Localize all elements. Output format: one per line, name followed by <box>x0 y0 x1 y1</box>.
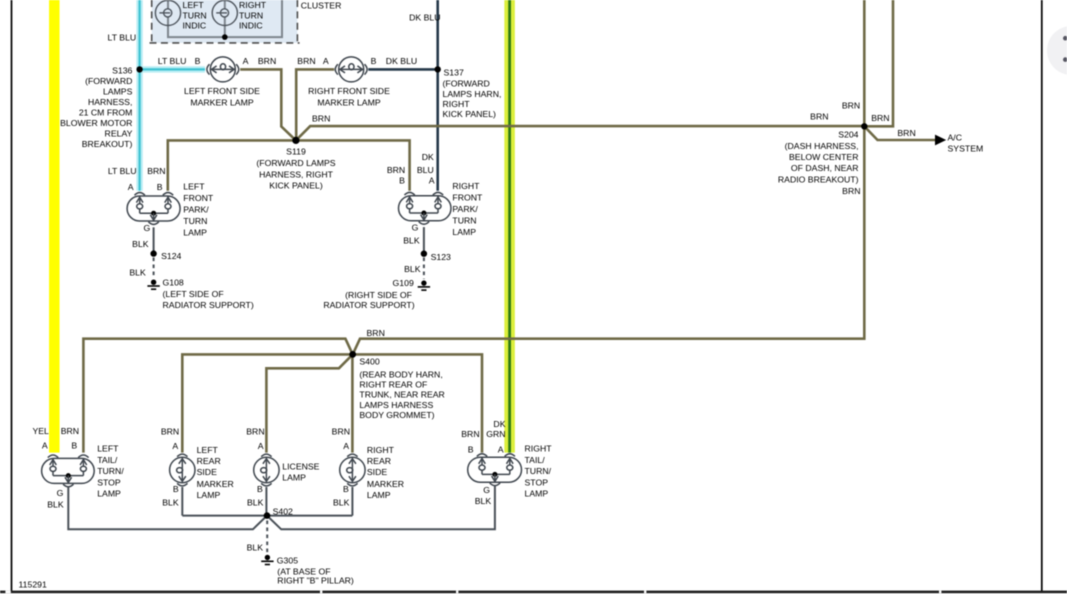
svg-text:115291: 115291 <box>19 580 48 590</box>
svg-text:A: A <box>429 175 435 185</box>
svg-text:RIGHT "B" PILLAR): RIGHT "B" PILLAR) <box>277 575 354 585</box>
svg-text:BLK: BLK <box>333 498 350 508</box>
label B BLK (left rear marker) <box>162 484 179 508</box>
wire LT BLU vertical <box>136 0 142 191</box>
wire BRN S400 branch to left rear marker <box>182 354 352 452</box>
svg-text:B: B <box>371 56 377 66</box>
svg-text:DK BLU: DK BLU <box>386 56 417 66</box>
svg-text:BLK: BLK <box>404 264 421 274</box>
svg-text:BLK: BLK <box>403 236 420 246</box>
svg-text:STOP: STOP <box>525 478 549 488</box>
node cluster bus junction <box>222 34 228 40</box>
svg-text:BLK: BLK <box>132 239 149 249</box>
svg-text:MARKER: MARKER <box>197 479 234 489</box>
labels B DK BLU (right marker) <box>371 56 418 66</box>
svg-text:STOP: STOP <box>97 478 121 488</box>
svg-text:A: A <box>243 56 249 66</box>
label LEFT TAIL/TURN/STOP LAMP <box>97 443 124 498</box>
floating UI button right edge <box>1047 26 1067 75</box>
svg-text:OF DASH, NEAR: OF DASH, NEAR <box>791 163 859 173</box>
svg-text:FRONT: FRONT <box>183 193 214 203</box>
svg-text:CLUSTER: CLUSTER <box>301 1 342 11</box>
node S119 <box>292 137 299 144</box>
right page border <box>1041 0 1043 591</box>
svg-text:SIDE: SIDE <box>367 467 387 477</box>
svg-text:DK: DK <box>422 152 434 162</box>
svg-text:A: A <box>323 56 329 66</box>
svg-text:MARKER: MARKER <box>367 479 404 489</box>
svg-text:TAIL/: TAIL/ <box>525 455 546 465</box>
node S123 <box>421 251 427 257</box>
lamp LEFT TURN INDIC <box>155 0 180 25</box>
svg-text:(FORWARD LAMPS: (FORWARD LAMPS <box>256 158 335 168</box>
arrow to A/C system <box>935 135 946 146</box>
label LEFT FRONT PARK/TURN LAMP <box>183 182 214 238</box>
svg-text:G: G <box>483 485 490 495</box>
label LEFT TURN INDIC <box>183 0 207 31</box>
labels BRN A (right rear marker) <box>332 426 350 451</box>
svg-text:HARNESS, RIGHT: HARNESS, RIGHT <box>259 169 334 179</box>
wire BLK left park ground <box>153 227 155 251</box>
svg-text:LEFT: LEFT <box>183 0 205 10</box>
svg-text:RADIATOR SUPPORT): RADIATOR SUPPORT) <box>323 300 414 310</box>
label S204 block <box>778 130 859 185</box>
wire BRN vertical feed 1 (to S204, bus, left tail) <box>83 0 864 453</box>
label RIGHT FRONT SIDE MARKER LAMP <box>308 86 390 107</box>
wire BRN S204 to A/C system <box>864 126 935 140</box>
svg-text:BLK: BLK <box>247 542 264 552</box>
label B BLK (right rear marker) <box>333 484 350 508</box>
instrument cluster box <box>150 0 300 43</box>
svg-text:TRUNK, NEAR REAR: TRUNK, NEAR REAR <box>359 390 444 400</box>
svg-text:TURN: TURN <box>452 216 476 226</box>
svg-text:(RIGHT SIDE OF: (RIGHT SIDE OF <box>345 290 412 300</box>
svg-text:YEL: YEL <box>32 426 49 436</box>
node S124 <box>150 250 156 256</box>
svg-text:INDIC: INDIC <box>239 21 263 31</box>
svg-text:MARKER LAMP: MARKER LAMP <box>317 97 380 107</box>
bottom frame bar <box>0 591 1067 594</box>
svg-text:G: G <box>57 488 64 498</box>
svg-text:G: G <box>412 223 419 233</box>
wire BLK right rear marker to bus <box>351 487 353 516</box>
wire BLK dashed to G305 <box>266 521 268 553</box>
svg-text:PARK/: PARK/ <box>183 205 209 215</box>
label RIGHT REAR SIDE MARKER LAMP <box>367 445 404 500</box>
labels BRN A (right marker) <box>297 56 329 66</box>
wire BRN S400 branch to right tail <box>353 354 482 452</box>
svg-text:G: G <box>144 223 151 233</box>
svg-text:S400: S400 <box>359 357 379 367</box>
node S137 <box>435 66 441 72</box>
wire BRN vertical feed 2 into S204 <box>864 0 893 126</box>
svg-text:TURN/: TURN/ <box>525 466 552 476</box>
wire cluster bottom bus <box>167 0 282 37</box>
svg-text:S123: S123 <box>431 252 451 262</box>
svg-text:BRN: BRN <box>147 166 165 176</box>
wire cluster right turn indic feed <box>224 0 226 38</box>
lamp LEFT FRONT PARK/TURN <box>127 193 180 225</box>
svg-text:SYSTEM: SYSTEM <box>948 144 984 154</box>
svg-text:KICK PANEL): KICK PANEL) <box>443 109 497 119</box>
svg-text:G109: G109 <box>393 278 414 288</box>
svg-text:LT BLU: LT BLU <box>158 56 187 66</box>
svg-text:B: B <box>399 175 405 185</box>
svg-text:TURN: TURN <box>183 10 207 20</box>
ground G109 <box>418 280 430 290</box>
labels LT BLU B (left marker) <box>158 56 201 66</box>
lamp RIGHT FRONT SIDE MARKER <box>335 57 367 82</box>
left page border <box>11 0 13 591</box>
svg-text:BRN: BRN <box>810 112 828 122</box>
svg-text:BRN: BRN <box>297 56 315 66</box>
svg-text:BRN: BRN <box>312 114 330 124</box>
wire DK GRN right tail feed <box>504 0 515 453</box>
svg-text:REAR: REAR <box>197 456 221 466</box>
wire BLK right park ground <box>423 227 425 251</box>
wire cluster left turn indic feed <box>167 0 169 38</box>
svg-text:BRN: BRN <box>897 128 915 138</box>
svg-text:B: B <box>343 484 349 494</box>
wire BLK S402 ground bus <box>182 515 352 517</box>
label LEFT REAR SIDE MARKER LAMP <box>197 445 234 500</box>
label S137 block <box>443 68 502 120</box>
node S136 <box>136 66 142 72</box>
wire BLK right tail ground to S402 <box>267 486 495 530</box>
svg-text:TURN: TURN <box>183 216 207 226</box>
svg-text:B: B <box>173 484 179 494</box>
label A/C SYSTEM <box>948 132 984 153</box>
svg-text:B: B <box>71 441 77 451</box>
label G305 block <box>277 556 354 586</box>
label LICENSE LAMP <box>282 462 319 483</box>
labels A BRN (left marker) <box>243 56 277 66</box>
label LEFT FRONT SIDE MARKER LAMP <box>184 86 260 107</box>
wire BRN S400 branch to license lamp <box>266 354 352 452</box>
label RIGHT TURN INDIC <box>239 0 267 31</box>
wire LT BLU branch to left front side marker <box>140 66 205 72</box>
svg-text:RIGHT: RIGHT <box>452 181 480 191</box>
svg-text:LAMPS: LAMPS <box>103 87 133 97</box>
svg-text:A: A <box>258 441 264 451</box>
labels BRN A (license) <box>246 426 264 451</box>
svg-text:RIGHT: RIGHT <box>443 99 471 109</box>
wire BRN left marker A to S119 <box>240 69 296 140</box>
labels BRN / DK GRN / B A (right tail) <box>461 419 505 454</box>
svg-text:BLK: BLK <box>162 498 179 508</box>
svg-text:S204: S204 <box>838 130 858 140</box>
lamp LICENSE <box>254 454 279 486</box>
svg-text:RIGHT FRONT SIDE: RIGHT FRONT SIDE <box>308 86 390 96</box>
svg-text:A/C: A/C <box>948 132 962 142</box>
svg-text:GRN: GRN <box>486 429 505 439</box>
svg-text:BRN: BRN <box>61 426 79 436</box>
ground G108 <box>147 280 159 290</box>
labels LT BLU BRN / A B (left park) <box>108 166 166 192</box>
svg-text:LICENSE: LICENSE <box>282 462 319 472</box>
svg-text:DK BLU: DK BLU <box>409 12 440 22</box>
labels YEL BRN / A B (left tail) <box>32 426 79 451</box>
svg-text:BRN: BRN <box>367 328 385 338</box>
svg-text:BRN: BRN <box>387 165 405 175</box>
svg-text:DK: DK <box>493 419 505 429</box>
svg-text:BLOWER MOTOR: BLOWER MOTOR <box>60 118 132 128</box>
svg-text:S137: S137 <box>444 68 464 78</box>
svg-text:BLK: BLK <box>475 496 492 506</box>
svg-text:PARK/: PARK/ <box>452 204 478 214</box>
svg-text:RIGHT: RIGHT <box>525 443 553 453</box>
svg-text:FRONT: FRONT <box>452 193 483 203</box>
wire BLK dashed to G108 <box>153 258 155 279</box>
svg-text:A: A <box>42 441 48 451</box>
svg-text:(LEFT SIDE OF: (LEFT SIDE OF <box>163 289 224 299</box>
svg-text:LAMP: LAMP <box>282 473 306 483</box>
label RIGHT FRONT PARK/TURN LAMP <box>452 181 483 237</box>
lamp RIGHT FRONT PARK/TURN <box>399 192 452 224</box>
svg-text:(FORWARD: (FORWARD <box>85 76 132 86</box>
label G109 block <box>323 278 414 310</box>
svg-text:KICK PANEL): KICK PANEL) <box>269 181 323 191</box>
svg-text:LAMP: LAMP <box>525 489 549 499</box>
svg-text:A: A <box>128 182 134 192</box>
svg-text:LAMP: LAMP <box>367 490 391 500</box>
svg-text:TAIL/: TAIL/ <box>97 455 118 465</box>
svg-text:BREAKOUT): BREAKOUT) <box>82 139 133 149</box>
svg-text:LAMPS HARN,: LAMPS HARN, <box>443 89 502 99</box>
svg-text:BRN: BRN <box>842 186 860 196</box>
svg-text:BRN: BRN <box>332 426 350 436</box>
svg-text:LEFT: LEFT <box>97 443 119 453</box>
svg-text:(REAR BODY HARN,: (REAR BODY HARN, <box>359 369 442 379</box>
svg-text:(FORWARD: (FORWARD <box>443 79 490 89</box>
svg-text:G108: G108 <box>163 278 184 288</box>
svg-text:LEFT FRONT SIDE: LEFT FRONT SIDE <box>184 86 260 96</box>
wire BLK dashed to G109 <box>423 258 425 280</box>
wire BRN right marker A to S119 <box>296 69 334 140</box>
svg-text:BLK: BLK <box>247 498 264 508</box>
svg-text:TURN/: TURN/ <box>97 466 124 476</box>
svg-text:LEFT: LEFT <box>183 182 205 192</box>
svg-text:S124: S124 <box>161 251 181 261</box>
svg-text:S136: S136 <box>112 66 132 76</box>
svg-text:B: B <box>157 182 163 192</box>
svg-text:BRN: BRN <box>461 429 479 439</box>
label RIGHT TAIL/TURN/STOP LAMP <box>525 443 553 498</box>
lamp RIGHT REAR SIDE MARKER <box>340 454 365 486</box>
lamp LEFT REAR SIDE MARKER <box>170 454 195 486</box>
svg-text:A: A <box>498 444 504 454</box>
svg-text:BRN: BRN <box>161 426 179 436</box>
svg-text:LAMP: LAMP <box>183 228 207 238</box>
wire DK BLU vertical <box>436 0 439 191</box>
wire DK BLU right marker B to S137 <box>368 68 437 71</box>
label S119 block <box>256 146 335 190</box>
svg-text:TURN: TURN <box>239 10 263 20</box>
svg-text:A: A <box>172 441 178 451</box>
svg-text:LAMPS HARNESS: LAMPS HARNESS <box>359 400 433 410</box>
wire BLK left tail ground to S402 <box>68 487 267 529</box>
ground G305 <box>261 555 273 565</box>
svg-text:RADIATOR SUPPORT): RADIATOR SUPPORT) <box>163 300 254 310</box>
wire BLK license lamp to bus <box>265 487 267 516</box>
svg-text:MARKER LAMP: MARKER LAMP <box>190 97 253 107</box>
svg-text:21 CM FROM: 21 CM FROM <box>79 108 133 118</box>
label B BLK (license) <box>247 484 264 508</box>
label S136 block <box>60 66 132 150</box>
svg-text:S119: S119 <box>286 146 306 156</box>
svg-text:LAMP: LAMP <box>197 490 221 500</box>
svg-text:RIGHT: RIGHT <box>239 0 267 10</box>
svg-text:RADIO BREAKOUT): RADIO BREAKOUT) <box>778 174 859 184</box>
svg-text:BRN: BRN <box>246 426 264 436</box>
svg-text:REAR: REAR <box>367 456 391 466</box>
node S402 <box>264 512 271 519</box>
wire YEL left tail feed <box>49 0 60 453</box>
labels BRN / DK BLU / B A (right park) <box>387 152 435 186</box>
svg-text:B: B <box>468 444 474 454</box>
svg-text:BLU: BLU <box>417 165 434 175</box>
svg-text:RIGHT REAR OF: RIGHT REAR OF <box>359 380 427 390</box>
svg-text:LAMP: LAMP <box>452 227 476 237</box>
labels BRN A (left rear marker) <box>161 426 179 451</box>
svg-text:(DASH HARNESS,: (DASH HARNESS, <box>785 141 859 151</box>
svg-text:SIDE: SIDE <box>197 467 217 477</box>
svg-text:HARNESS,: HARNESS, <box>88 97 132 107</box>
lamp RIGHT TAIL/TURN/STOP <box>468 454 522 486</box>
svg-text:BRN: BRN <box>871 113 889 123</box>
wire BRN S119 to right park lamp <box>296 140 410 190</box>
svg-text:B: B <box>195 56 201 66</box>
lamp RIGHT TURN INDIC <box>212 0 237 25</box>
node S400 <box>349 351 356 358</box>
svg-text:A: A <box>343 441 349 451</box>
wire BRN S119 to left park lamp <box>168 140 296 190</box>
svg-text:RIGHT: RIGHT <box>367 445 395 455</box>
svg-text:LT BLU: LT BLU <box>108 32 137 42</box>
svg-text:BRN: BRN <box>842 100 860 110</box>
svg-text:S402: S402 <box>273 507 293 517</box>
wire BRN S400 to right rear marker <box>351 354 354 452</box>
svg-text:LAMP: LAMP <box>97 489 121 499</box>
wire BLK left rear marker to bus <box>181 487 183 516</box>
label S400 block <box>359 357 444 420</box>
label G108 block <box>163 278 254 310</box>
svg-text:BLK: BLK <box>47 499 64 509</box>
lamp LEFT FRONT SIDE MARKER <box>207 57 239 82</box>
svg-text:INDIC: INDIC <box>183 21 207 31</box>
lamp LEFT TAIL/TURN/STOP <box>42 455 95 487</box>
svg-text:BELOW CENTER: BELOW CENTER <box>789 152 859 162</box>
svg-text:BODY GROMMET): BODY GROMMET) <box>359 410 434 420</box>
svg-text:RELAY: RELAY <box>105 129 133 139</box>
node S204 <box>861 123 867 129</box>
svg-text:LT BLU: LT BLU <box>108 166 137 176</box>
svg-text:BRN: BRN <box>258 56 276 66</box>
svg-text:B: B <box>257 484 263 494</box>
wire BRN S119 to S204 <box>296 126 864 140</box>
svg-text:BLK: BLK <box>129 267 146 277</box>
svg-text:LEFT: LEFT <box>197 445 219 455</box>
svg-text:G305: G305 <box>277 556 298 566</box>
